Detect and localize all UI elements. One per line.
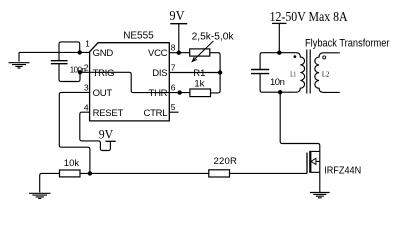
wire rail to gate: [230, 172, 308, 174]
wire rail left to ground: [40, 173, 60, 192]
power 9V supply (top): [178, 24, 180, 53]
capacitor C1 plates: [51, 61, 68, 64]
phase dot L1: [294, 55, 297, 58]
junction: [278, 90, 282, 94]
svg-text:OUT: OUT: [93, 88, 113, 99]
svg-text:IRFZ44N: IRFZ44N: [324, 166, 361, 177]
junction: [277, 51, 281, 55]
IC NE555 body: [90, 43, 170, 121]
wire TRIG to THR link: [80, 72, 190, 92]
resistor 10k: [60, 170, 81, 177]
svg-text:L1: L1: [290, 70, 296, 78]
svg-text:1: 1: [85, 38, 90, 48]
power 9V supply bar (RESET): [106, 140, 116, 142]
resistor R1 1k: [190, 89, 211, 97]
wire source down: [319, 172, 321, 192]
svg-text:TRIG: TRIG: [93, 68, 115, 79]
svg-text:5: 5: [171, 102, 176, 112]
wire OUT pin3 route: [59, 92, 90, 173]
capacitor C2 10n plates: [251, 70, 269, 74]
svg-text:DIS: DIS: [152, 68, 167, 79]
svg-text:R1: R1: [193, 68, 205, 79]
svg-text:CTRL: CTRL: [143, 108, 167, 119]
svg-text:12-50V Max 8A: 12-50V Max 8A: [270, 9, 348, 24]
transistor Q1 IRFZ44N: [307, 151, 320, 174]
svg-text:6: 6: [171, 83, 176, 93]
junction: [177, 51, 181, 55]
capacitor C1 100n top lead: [59, 42, 80, 61]
svg-text:GND: GND: [93, 48, 114, 59]
ground: [9, 52, 30, 68]
potentiometer 2,5k-5,0k: [190, 49, 210, 56]
svg-text:2: 2: [84, 62, 89, 72]
ground: [29, 193, 51, 198]
svg-text:Flyback Transformer: Flyback Transformer: [305, 37, 390, 49]
svg-text:4: 4: [84, 102, 89, 112]
wire DIS pin7: [169, 72, 220, 74]
junction: [78, 50, 82, 54]
svg-text:3: 3: [84, 83, 89, 93]
resistor 220R: [209, 170, 230, 177]
svg-text:7: 7: [171, 63, 176, 73]
wire drain route: [280, 92, 320, 151]
wire pot right lead down: [210, 53, 220, 93]
wire RESET pin4 route: [80, 112, 111, 150]
junction: [218, 70, 222, 74]
svg-text:NE555: NE555: [123, 31, 154, 42]
wire: [19, 51, 90, 53]
wire rail middle: [80, 172, 209, 174]
svg-text:RESET: RESET: [93, 108, 124, 119]
svg-text:10k: 10k: [64, 158, 80, 169]
svg-text:VCC: VCC: [148, 48, 168, 59]
svg-text:2,5k-5,0k: 2,5k-5,0k: [192, 31, 234, 42]
phase dot L2: [323, 56, 326, 59]
svg-text:1k: 1k: [194, 79, 204, 90]
svg-text:L2: L2: [322, 71, 330, 79]
inductor L1 primary winding: [296, 53, 305, 92]
wire CTRL pin5 stub: [169, 111, 178, 113]
junction node THR pin6: [178, 90, 182, 94]
svg-text:9V: 9V: [169, 8, 184, 23]
wire primary loop top: [260, 53, 296, 70]
junction: [88, 171, 92, 175]
junction: [78, 70, 82, 74]
wire primary loop bottom: [260, 74, 296, 92]
wire VCC pin8 to potentiometer: [169, 52, 189, 54]
capacitor C1 bottom lead: [59, 64, 80, 82]
ground: [310, 193, 330, 198]
svg-text:THR: THR: [149, 88, 168, 99]
svg-text:220R: 220R: [214, 156, 238, 167]
svg-text:10n: 10n: [270, 77, 285, 88]
transformer core: [307, 50, 310, 94]
svg-text:8: 8: [171, 43, 176, 53]
inductor L2 secondary winding: [315, 53, 324, 93]
svg-text:9V: 9V: [99, 128, 113, 142]
wire secondary loop: [324, 53, 340, 93]
